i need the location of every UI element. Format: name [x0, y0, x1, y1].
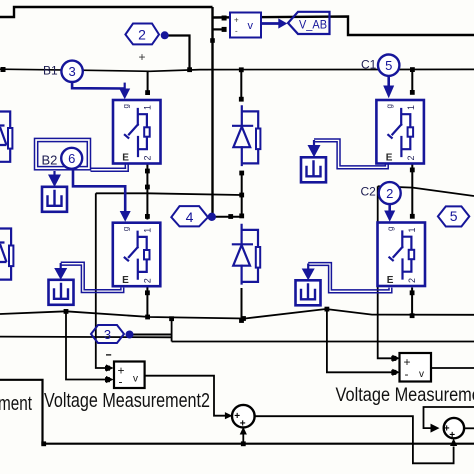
wire: vertical connector hexagon3 to rail	[171, 318, 173, 342]
wire: top horizontal rail (DC bus top)	[0, 69, 474, 71]
gate terminator block 2	[49, 280, 74, 305]
wire: VM2 output to sum1	[145, 376, 229, 416]
svg-text:C2: C2	[361, 185, 377, 199]
wire: sum2 output to right edge	[465, 427, 474, 429]
wire: IGBT4 pin2 stub to bottom rail	[411, 288, 413, 316]
arrow into terminator 2	[60, 263, 62, 269]
junction square on left leg link	[145, 185, 150, 190]
arrow into IGBT3 gate	[383, 86, 394, 99]
terminal square VM1 plus	[222, 16, 227, 21]
hexagon tag 5	[438, 206, 469, 226]
label minus below hexagon 3	[106, 354, 111, 356]
connection port 2 (C2)	[379, 182, 401, 204]
IGBT block 4	[378, 223, 426, 287]
diode D2	[233, 225, 260, 284]
svg-text:5: 5	[450, 208, 458, 224]
svg-text:v: v	[248, 20, 254, 32]
wire: VM1 plus stub and hidden line to V_AB step, to right edge	[213, 17, 474, 36]
svg-text:v: v	[133, 374, 138, 385]
terminal square diode2 bottom	[239, 318, 244, 323]
terminal square IGBT1 pin2	[145, 169, 150, 174]
terminal square VM2 minus input	[105, 377, 110, 382]
svg-text:ment: ment	[0, 393, 32, 415]
wire: vertical DC+ drop x=212.5 to node 4	[211, 7, 213, 217]
svg-text:B1: B1	[43, 64, 58, 78]
sum block S2	[444, 418, 464, 441]
svg-text:2: 2	[386, 186, 393, 201]
arrow into IGBT4 gate	[384, 211, 395, 222]
connection port 3 (B1)	[61, 61, 82, 82]
terminal square IGBT4 pin2	[410, 290, 415, 295]
arrow into terminator 4	[307, 264, 309, 270]
wire: right leg midpoint link IGBT3 to IGBT4	[411, 165, 413, 219]
svg-text:2: 2	[138, 27, 146, 43]
terminal square VM1 minus	[222, 27, 227, 32]
wire: hexagon3 tag link up to bottom rail	[130, 334, 172, 336]
svg-text:+: +	[240, 418, 246, 429]
svg-text:-: -	[235, 27, 238, 36]
terminal square IGBT3 pin1 top	[410, 90, 415, 95]
wire: sum2 left input from right edge	[424, 407, 474, 428]
terminal square VM2 plus input	[105, 366, 110, 371]
junction square bottom rail IGBT4 leg	[410, 313, 415, 318]
wire: IGBT2 m-wire to terminator 2	[61, 262, 124, 292]
wire: bottom rail tap down to VM2 minus	[66, 311, 108, 379]
svg-text:-: -	[119, 375, 123, 389]
arrow into VM2 plus	[106, 364, 114, 371]
wire: bottom rail tap down to VM minus	[327, 309, 397, 372]
arrow into VM minus	[392, 369, 400, 376]
junction square mid rail to diode column	[239, 193, 244, 198]
wire: stub rail to diode1 anode	[240, 70, 242, 98]
svg-text:Voltage Measurement2: Voltage Measurement2	[44, 390, 210, 412]
svg-text:B2: B2	[42, 153, 58, 168]
wire: VM1 left output going down-left bottom corner	[0, 380, 474, 444]
wire: VM output to right edge	[431, 367, 474, 369]
arrow into sum2 bottom	[450, 438, 457, 446]
svg-text:+: +	[449, 430, 455, 441]
svg-text:-: -	[405, 367, 409, 381]
terminal square IGBT2 pin1	[145, 214, 150, 219]
snubber resistor of cropped diode bottom	[9, 246, 13, 267]
wire: sum1 output to sum2 bottom	[255, 416, 454, 463]
gate terminator block 3	[301, 157, 326, 182]
junction square IGBT3 pin1 on rail	[410, 67, 415, 72]
wire: port2 to IGBT4 gate	[388, 204, 391, 211]
wire: node 4 horizontal to diode column	[212, 216, 242, 218]
IGBT block 1	[113, 100, 161, 164]
junction square bottom rail VM minus tap	[325, 307, 330, 312]
hexagon tag 4	[171, 206, 208, 226]
svg-text:5: 5	[385, 58, 392, 73]
junction square hexagon3 link on rail	[169, 316, 174, 321]
wire: long bus line left segment	[0, 336, 172, 339]
hexagon tag 2	[125, 24, 159, 45]
wire: port6 to IGBT2 gate	[72, 169, 126, 212]
svg-text:V_AB: V_AB	[299, 18, 327, 32]
wire: IGBT2 pin2 stub to bottom rail	[146, 288, 148, 318]
arrow into VM2 minus	[106, 376, 114, 383]
voltage measurement block VM1 (top)	[230, 13, 261, 38]
node dot hexagon 2	[161, 31, 169, 39]
junction square node hexagon2 wire on top rail	[187, 67, 192, 72]
arrow into terminator 3	[313, 140, 315, 146]
svg-text:3: 3	[104, 327, 111, 342]
arrow into IGBT2 gate	[120, 211, 131, 222]
svg-text:6: 6	[68, 151, 75, 166]
wire: IGBT1 m-wire loop to terminator 1	[35, 138, 130, 171]
terminal square IGBT1 pin1	[145, 90, 150, 95]
wire: bottom rail (DC bus bottom, wavy)	[0, 309, 474, 319]
IGBT block 2	[113, 223, 161, 287]
terminal square IGBT4 pin1	[410, 214, 415, 219]
junction square bottom long wire	[41, 441, 46, 446]
svg-text:v: v	[419, 369, 424, 380]
arrow into terminator 1	[53, 171, 55, 176]
junction on vertical x=212.5	[210, 38, 215, 43]
svg-text:Voltage Measurement: Voltage Measurement	[336, 385, 474, 406]
wire: hexagon2 tag to top rail	[165, 36, 190, 70]
wire: IGBT3 m-wire to terminator 3	[314, 139, 388, 169]
terminal square diode1 top	[239, 97, 244, 102]
connection port 5 (C1)	[378, 54, 399, 75]
snubber resistor of cropped diode top	[8, 128, 12, 149]
junction square on node4 horizontal	[228, 214, 233, 219]
wire: left leg midpoint link IGBT1 to IGBT2	[146, 164, 148, 220]
svg-text:4: 4	[186, 209, 194, 225]
wire: right mid rail through C2 to right edge	[378, 186, 474, 196]
junction square diode column at node4 wire	[239, 214, 244, 219]
terminal square VM minus input	[391, 370, 396, 375]
cropped diode at left edge bottom	[0, 229, 11, 280]
signal wire VM1 to goto tag V_AB	[261, 22, 280, 25]
junction square diode1 top on rail	[239, 67, 244, 72]
stem above IGBT1 gate arrow	[124, 83, 126, 90]
arrow into sum2 left	[431, 424, 440, 433]
node dot hexagon 3	[126, 331, 134, 339]
wire: top DC+ feeder from left edge	[0, 7, 213, 17]
gate terminator block 4	[296, 280, 321, 305]
junction square sum1 bottom tap	[241, 441, 246, 446]
wire: VM2 plus sense drop	[96, 193, 108, 368]
arrow into VM plus	[392, 355, 400, 362]
node dot hexagon 4	[208, 213, 216, 221]
svg-text:+: +	[138, 50, 145, 64]
wire: stub diode2 anode down to bottom rail	[241, 288, 243, 321]
IGBT block 3	[376, 100, 424, 164]
voltage measurement block VM (bottom right)	[400, 353, 432, 382]
wire: left mid rail (node A)	[96, 193, 242, 195]
hexagon tag 3	[91, 325, 124, 343]
svg-text:+: +	[234, 16, 239, 25]
junction square bottom rail IGBT2 leg	[145, 315, 150, 320]
sum block S1	[232, 405, 255, 429]
voltage measurement block VM2 (bottom left)	[114, 362, 145, 389]
wire: diode midpoint column	[241, 173, 243, 217]
cropped diode at left edge top	[0, 112, 10, 162]
terminal square diode1 bottom	[239, 171, 244, 176]
terminal square IGBT2 pin2	[145, 290, 150, 295]
goto tag V_AB	[288, 12, 330, 34]
svg-text:3: 3	[68, 64, 75, 79]
wire: sum1 bottom input riser	[242, 433, 244, 444]
arrow into IGBT1 gate	[119, 89, 130, 100]
diode D1	[233, 106, 260, 165]
wire: stub rail to IGBT1 pin1	[147, 71, 149, 91]
connection port 6 (B2)	[61, 148, 82, 169]
junction square bottom rail diode2	[241, 316, 246, 321]
gate terminator block 1	[42, 187, 67, 212]
wire: port3 to IGBT1 gate	[72, 82, 125, 89]
arrow into sum1 left	[225, 412, 233, 419]
wire: VM plus sense drop from right mid rail	[378, 186, 397, 358]
terminal square IGBT3 pin2	[410, 168, 415, 173]
wire: VM1 minus stub	[213, 28, 225, 30]
wire: IGBT4 m-wire to terminator 4	[308, 263, 392, 293]
wire: stub rail to IGBT3 pin1	[411, 70, 413, 91]
svg-text:C1: C1	[361, 58, 377, 72]
junction square bottom rail below gate terminator	[64, 309, 69, 314]
terminal square VM plus input	[391, 356, 396, 361]
wire: port5 to IGBT3 gate	[387, 76, 390, 86]
wire: long bus line right segment	[172, 341, 474, 343]
terminal square left end of top rail	[1, 67, 6, 72]
arrow into sum1 bottom	[240, 427, 247, 435]
